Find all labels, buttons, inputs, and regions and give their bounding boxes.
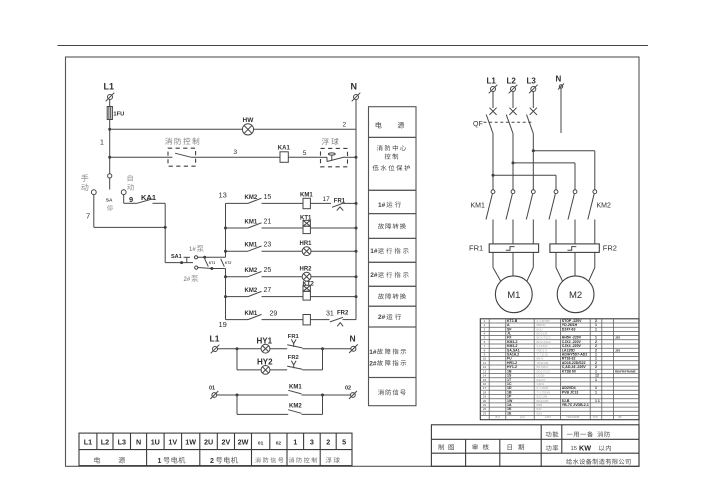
svg-text:1: 1 (595, 378, 597, 382)
wire HY2 branch (236, 349, 238, 370)
svg-text:(5)J: (5)J (495, 415, 500, 419)
svg-text:L1: L1 (84, 438, 92, 447)
wire rail 3 seg b (191, 156, 280, 158)
svg-text:JZ0: JZ0 (615, 348, 621, 352)
function box fault transfer (369, 214, 417, 239)
svg-text:RD/FR/FRAME: RD/FR/FRAME (615, 369, 636, 373)
contactor coil KM2 (rung6) (303, 315, 310, 325)
title 审核 (472, 444, 477, 450)
fire-control contact (175, 153, 191, 157)
svg-text:2U: 2U (204, 438, 213, 447)
svg-text:KT1: KT1 (209, 261, 216, 265)
svg-text:5: 5 (342, 438, 346, 447)
svg-text:KM2: KM2 (597, 203, 612, 210)
svg-text:15: 15 (571, 446, 577, 452)
svg-text:KM1: KM1 (300, 192, 313, 198)
function box 1# run (369, 190, 417, 213)
svg-text:9: 9 (129, 195, 133, 204)
wire phase L3 top (532, 92, 534, 109)
svg-text:KM2: KM2 (289, 404, 302, 410)
svg-text:17: 17 (323, 196, 331, 203)
contact KM2 (rung1) (226, 202, 249, 204)
wire rail 3 seg c (288, 156, 320, 158)
svg-text:KT2: KT2 (225, 261, 232, 265)
motor M2 wiring (555, 252, 557, 267)
border outer top line (58, 45, 649, 47)
contact KM2 (rung5) (226, 296, 249, 298)
svg-text:23: 23 (483, 411, 487, 415)
svg-text:2#: 2# (378, 314, 386, 321)
svg-text:02: 02 (276, 441, 282, 447)
svg-text:L2: L2 (101, 438, 109, 447)
title 功率 (546, 445, 552, 451)
selector position 手动 (81, 174, 88, 181)
fuse 1FU (107, 107, 112, 120)
svg-text:DZ47-63: DZ47-63 (562, 327, 576, 331)
wire phase drops + branches (492, 134, 494, 190)
svg-text:1FU: 1FU (113, 112, 124, 118)
svg-text:1: 1 (158, 458, 162, 465)
svg-text:1: 1 (595, 390, 597, 394)
breaker QF linkage (484, 121, 533, 123)
svg-text:1V: 1V (168, 438, 177, 447)
svg-text:3: 3 (234, 149, 238, 156)
svg-text:19: 19 (219, 320, 227, 329)
svg-text:FR2: FR2 (337, 310, 349, 316)
svg-text:FR2: FR2 (603, 244, 617, 253)
float-switch label 浮球 (322, 138, 329, 145)
svg-text:L1: L1 (104, 82, 115, 92)
svg-text:SA1: SA1 (171, 254, 182, 260)
wire N bus (355, 100, 357, 320)
svg-text:1U: 1U (151, 438, 160, 447)
breaker QF pole L2 (509, 108, 516, 115)
svg-text:N: N (350, 334, 356, 344)
wire rail 3 seg a (110, 156, 173, 158)
contact KT1 (tiny) (205, 259, 209, 267)
wire N (power) (560, 88, 562, 133)
wire manual path 7 (93, 195, 95, 228)
svg-text:N: N (351, 82, 358, 92)
function box fault indicators (369, 327, 417, 378)
group label 浮球 (326, 457, 332, 463)
contact KT2 (tiny) (221, 259, 225, 267)
wire rail 3 to N bus (345, 156, 357, 158)
svg-text:YB-7C 2VDB-2-1: YB-7C 2VDB-2-1 (562, 403, 589, 407)
svg-text:KA1: KA1 (278, 145, 291, 151)
svg-text:1#: 1# (370, 248, 378, 255)
svg-text:M2: M2 (569, 290, 582, 301)
svg-text:2-BY: 2-BY (545, 415, 551, 419)
svg-text:1: 1 (293, 438, 297, 447)
svg-text:1#: 1# (189, 247, 196, 253)
svg-text:FR1: FR1 (469, 244, 483, 253)
svg-text:QF: QF (473, 121, 483, 128)
svg-text:1: 1 (100, 140, 104, 147)
wire rail 2 right (254, 128, 356, 130)
svg-text:L1: L1 (487, 76, 497, 85)
svg-text:25: 25 (264, 267, 272, 274)
fire-control label 消防控制 (165, 138, 172, 145)
svg-text:HW: HW (243, 117, 255, 124)
float switch contact (321, 156, 328, 158)
svg-text:B,B,: B,B, (593, 415, 599, 419)
border frame (66, 57, 640, 466)
svg-text:15: 15 (264, 194, 272, 201)
function box 1# run indicator (369, 238, 417, 262)
SA1 throw to 1# bus (194, 256, 197, 259)
title 制图 (438, 444, 444, 450)
svg-text:KW: KW (579, 443, 591, 452)
svg-text:29: 29 (270, 310, 278, 317)
wire KM2 branch (236, 395, 238, 414)
svg-text:21: 21 (264, 219, 272, 226)
svg-text:PVB JC13: PVB JC13 (562, 390, 579, 394)
float-switch dashed box (321, 148, 348, 166)
svg-text:(B): (B) (618, 415, 622, 419)
function box fire-center control / low-water protect (369, 137, 417, 190)
svg-text:N: N (136, 438, 141, 447)
svg-text:2#: 2# (184, 277, 191, 283)
wire left bus down to SA (109, 120, 111, 174)
svg-text:L1: L1 (210, 334, 220, 344)
svg-text:3: 3 (310, 438, 314, 447)
contact KM1 (rung6) (226, 319, 249, 321)
function box power (369, 107, 417, 138)
wire phase L1 top (492, 92, 494, 109)
wire rail 2 left (110, 128, 243, 130)
wire to SA1 (153, 202, 166, 204)
svg-text:23: 23 (264, 242, 272, 249)
title 日期 (508, 444, 512, 449)
svg-text:HR1: HR1 (300, 241, 313, 247)
SA1 throw to 2# bus (195, 266, 198, 269)
svg-text:1E: 1E (507, 411, 512, 415)
svg-text:02: 02 (345, 386, 351, 392)
svg-text:YD22/2DB: YD22/2DB (566, 415, 579, 419)
svg-text:KT2B 60: KT2B 60 (562, 369, 576, 373)
svg-text:01: 01 (209, 386, 215, 392)
wire HY rail (218, 348, 262, 350)
wire 01-02 rail (217, 394, 289, 396)
svg-text:1 1: 1 1 (595, 399, 600, 403)
svg-text:HR2: HR2 (300, 266, 313, 272)
svg-text:KM1: KM1 (471, 203, 486, 210)
selector position 自动 (128, 175, 133, 182)
svg-text:1: 1 (595, 327, 597, 331)
breaker QF pole L3 (530, 108, 537, 115)
svg-text:2V: 2V (222, 438, 231, 447)
parts list table (480, 319, 639, 420)
function box fault transfer 2 (369, 286, 417, 306)
svg-text:01: 01 (258, 441, 264, 447)
group label 消防控制 (289, 457, 294, 463)
breaker QF pole L1 (489, 108, 496, 115)
contact KM1 (rung3) (226, 250, 249, 252)
group label 电源 (94, 457, 100, 463)
title block (431, 425, 639, 467)
svg-text:1#: 1# (378, 202, 386, 209)
company 给水设备制造有限公司 (566, 459, 572, 465)
svg-text:L3: L3 (527, 76, 537, 85)
svg-text:7: 7 (86, 212, 90, 221)
svg-text:L2: L2 (507, 76, 517, 85)
svg-text:2: 2 (326, 438, 330, 447)
svg-text:5: 5 (303, 150, 307, 157)
svg-text:L3: L3 (118, 438, 126, 447)
svg-text:N: N (556, 75, 562, 84)
value 一用一备 消防 (567, 433, 573, 436)
svg-text:2#: 2# (369, 360, 377, 367)
svg-text:1#: 1# (369, 349, 377, 356)
motor M1 (495, 276, 532, 313)
svg-text:2W: 2W (238, 438, 249, 447)
svg-text:KM1: KM1 (289, 385, 302, 391)
group label 消防信号 (255, 457, 260, 463)
svg-text:2: 2 (210, 458, 214, 465)
svg-text:JZ0: JZ0 (615, 336, 621, 340)
function box fire signal (369, 378, 417, 406)
svg-text:1W: 1W (185, 438, 196, 447)
wire phase L2 top (512, 92, 514, 109)
selector SA stop position (108, 174, 112, 178)
title 功能 (546, 431, 552, 437)
motor M2 (557, 276, 594, 313)
svg-text:13: 13 (219, 191, 227, 200)
svg-text:2#: 2# (370, 272, 378, 279)
svg-text:27: 27 (264, 287, 272, 294)
function box 2# run indicator (369, 262, 417, 286)
svg-text:(2)J: (2)J (520, 415, 525, 419)
svg-text:B2A: B2A (537, 411, 543, 415)
contact KM1 (rung2) (226, 227, 249, 229)
svg-text:2: 2 (343, 122, 347, 129)
svg-text:FR2: FR2 (288, 355, 299, 361)
motor M1 wiring (492, 252, 494, 267)
terminal strip (79, 433, 352, 466)
svg-text:FR1: FR1 (288, 334, 300, 340)
wire L1 drop (109, 100, 111, 107)
svg-text:31: 31 (326, 310, 334, 317)
svg-text:SA: SA (106, 198, 113, 204)
contact KM2 (rung4) (226, 276, 249, 278)
svg-text:KA1: KA1 (141, 193, 156, 202)
fire-control dashed box (168, 148, 196, 166)
function box 2# run (369, 306, 417, 327)
svg-text:M1: M1 (507, 290, 520, 301)
wire auto path 9 (123, 195, 125, 204)
